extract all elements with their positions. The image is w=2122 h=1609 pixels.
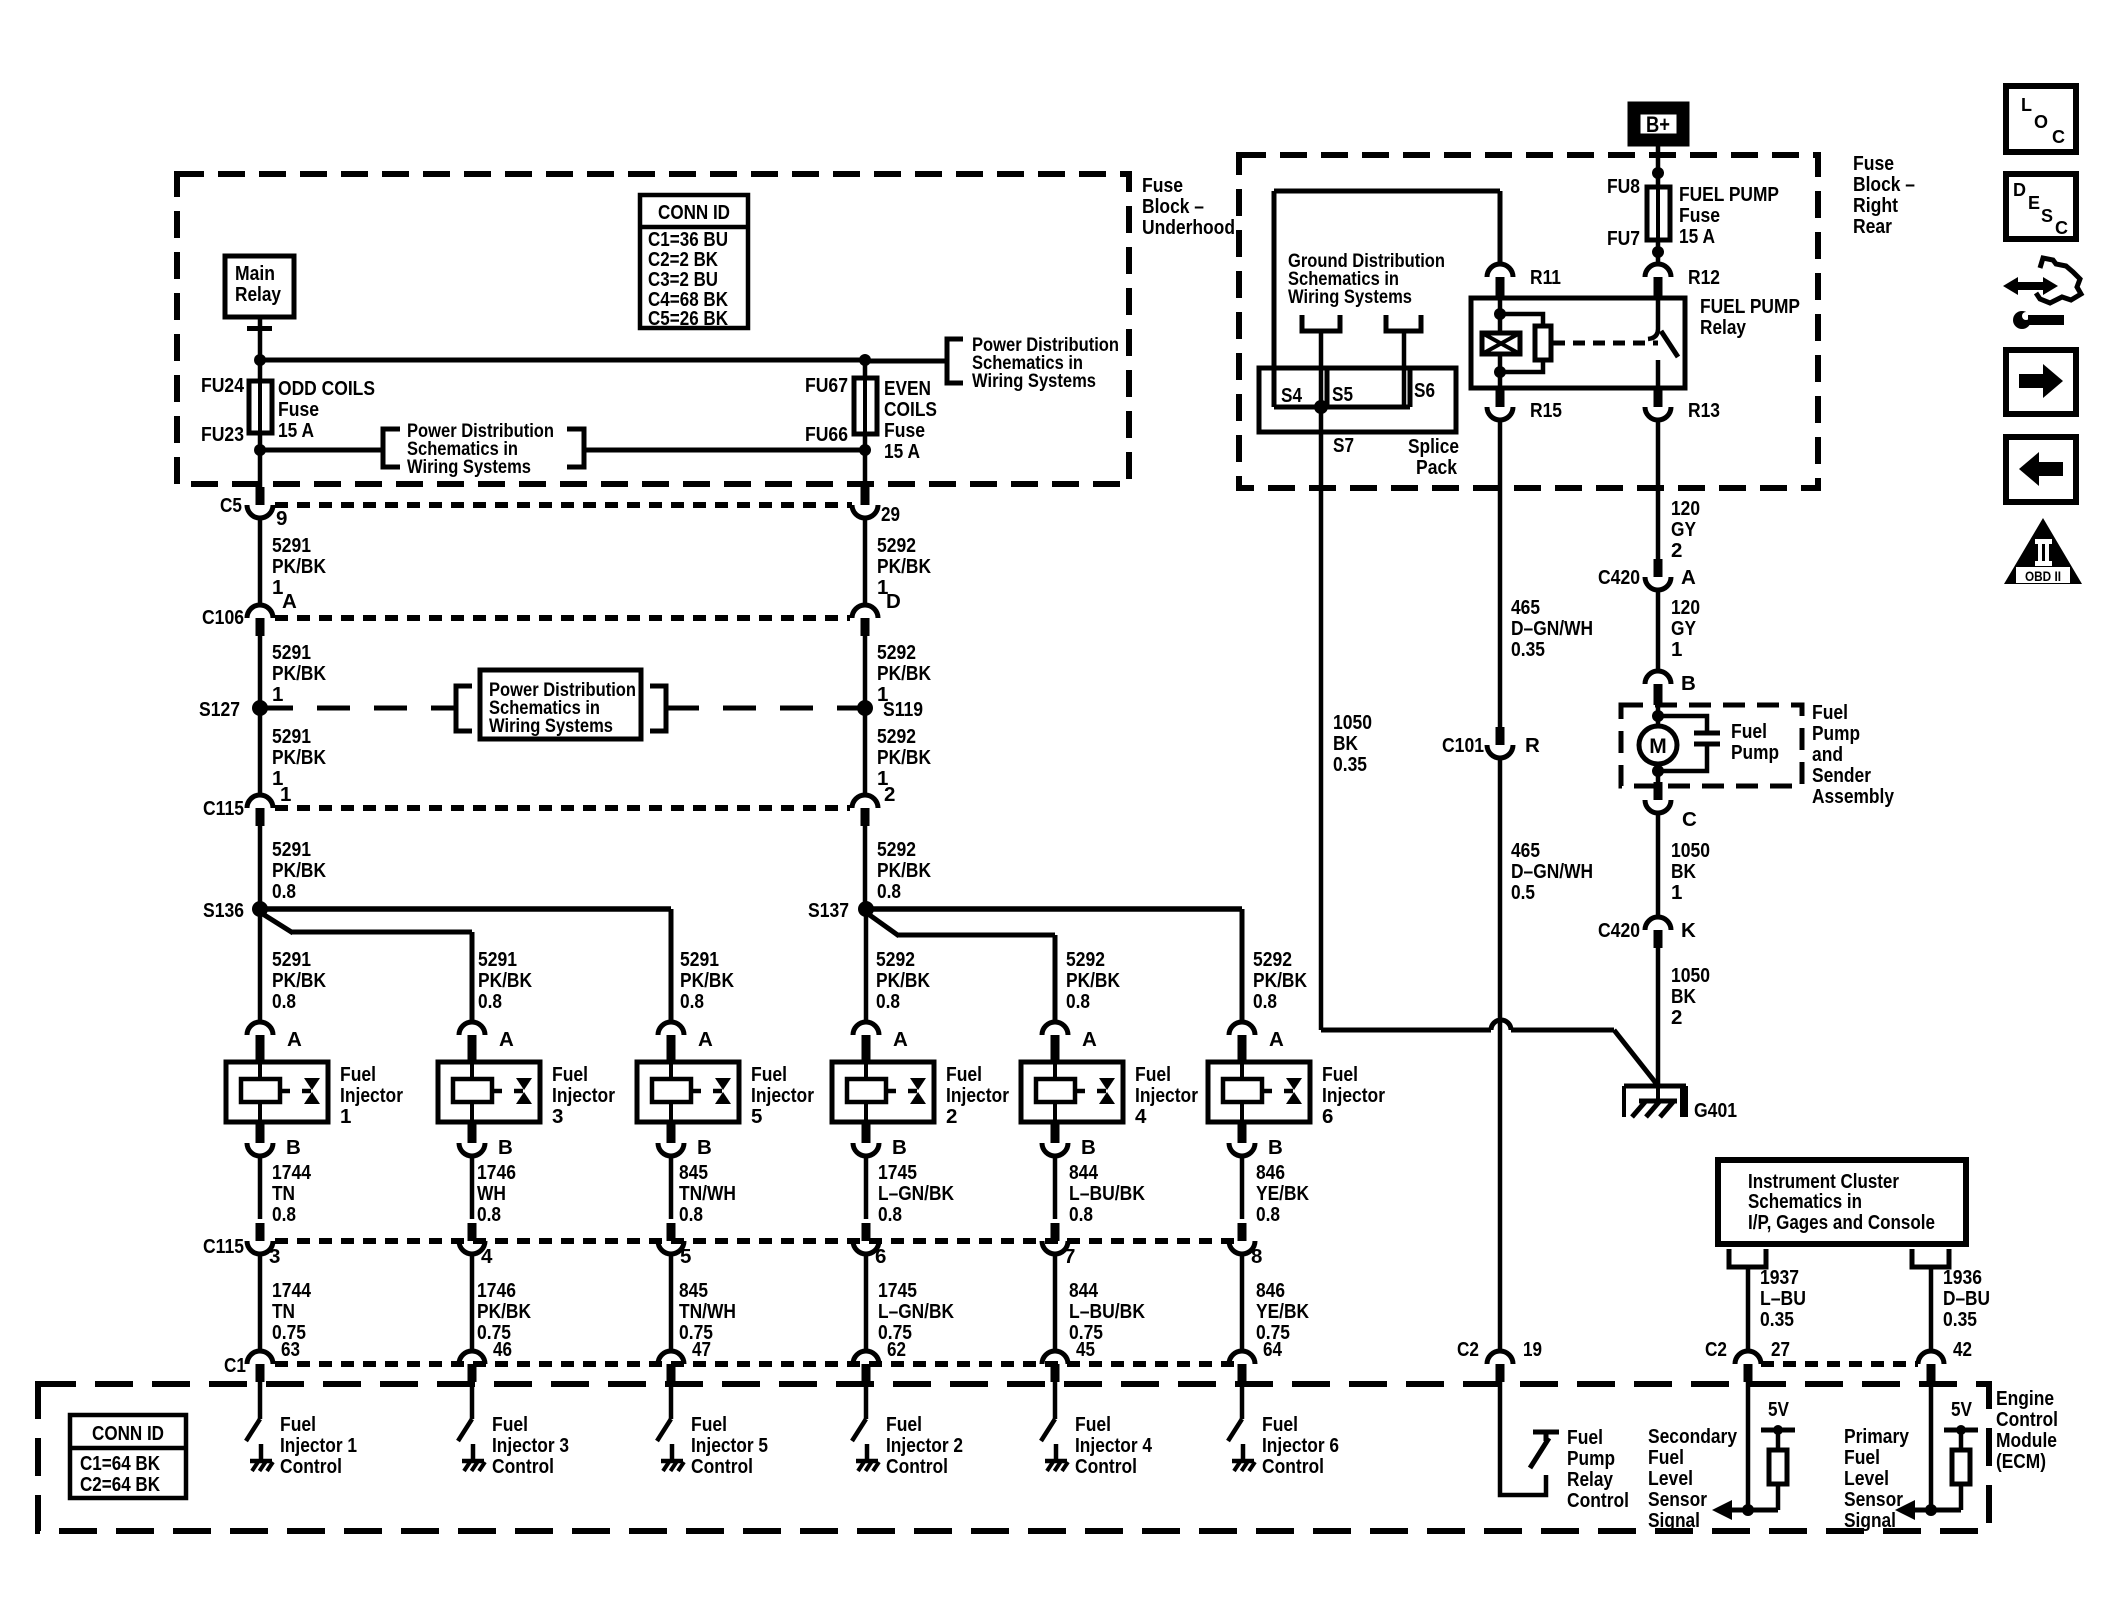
wire: top rail Main Relay to FU67 — [260, 358, 865, 363]
svg-text:Assembly: Assembly — [1812, 785, 1895, 808]
fuel injector 4 — [1021, 1062, 1123, 1122]
svg-text:Fuel: Fuel — [691, 1413, 727, 1436]
svg-text:PK/BK: PK/BK — [272, 746, 326, 769]
svg-text:FU66: FU66 — [805, 423, 848, 446]
svg-text:PK/BK: PK/BK — [477, 1300, 531, 1323]
svg-text:0.8: 0.8 — [679, 1203, 703, 1226]
svg-text:Engine: Engine — [1996, 1387, 2054, 1410]
connector R11 — [1487, 264, 1513, 277]
wire injector 3 B to C115 — [470, 1156, 475, 1219]
pump suppression capacitor — [1658, 716, 1707, 731]
svg-text:YE/BK: YE/BK — [1256, 1182, 1309, 1205]
svg-text:A: A — [1681, 566, 1696, 589]
svg-text:62: 62 — [887, 1338, 906, 1361]
connector pin B injector 4 — [1051, 1122, 1060, 1143]
connector R12 — [1645, 264, 1671, 277]
bracket: power distribution mid-right — [650, 686, 666, 731]
fuel pump and sender assembly dashed box — [1621, 705, 1802, 786]
svg-text:E: E — [2028, 193, 2040, 213]
svg-text:Fuel: Fuel — [1075, 1413, 1111, 1436]
svg-text:Injector 3: Injector 3 — [492, 1434, 569, 1457]
connector C1 pin 63 — [247, 1351, 273, 1364]
svg-text:FU7: FU7 — [1607, 227, 1640, 250]
svg-text:Block –: Block – — [1142, 195, 1204, 218]
svg-text:Fuel: Fuel — [340, 1063, 376, 1086]
svg-text:PK/BK: PK/BK — [877, 746, 931, 769]
svg-text:46: 46 — [493, 1338, 512, 1361]
svg-text:YE/BK: YE/BK — [1256, 1300, 1309, 1323]
svg-text:5292: 5292 — [877, 725, 916, 748]
svg-text:L–BU: L–BU — [1760, 1287, 1806, 1310]
splice S137 — [858, 901, 874, 917]
svg-text:FUEL PUMP: FUEL PUMP — [1679, 183, 1779, 206]
svg-text:COILS: COILS — [884, 398, 937, 421]
svg-text:FUEL PUMP: FUEL PUMP — [1700, 295, 1800, 318]
svg-text:19: 19 — [1523, 1338, 1542, 1361]
svg-text:Injector: Injector — [1135, 1084, 1198, 1107]
ECM driver: fuel injector 4 control switch — [1053, 1382, 1058, 1419]
svg-text:A: A — [1082, 1028, 1097, 1051]
wire 5292 PK/BK 1 (S119 to 2) — [863, 708, 868, 795]
svg-text:1937: 1937 — [1760, 1266, 1799, 1289]
svg-text:0.8: 0.8 — [1256, 1203, 1280, 1226]
connector C115 pin 8 — [1238, 1223, 1247, 1241]
svg-text:5291: 5291 — [478, 948, 517, 971]
svg-text:Injector: Injector — [1322, 1084, 1385, 1107]
svg-text:C5=26 BK: C5=26 BK — [648, 308, 728, 330]
svg-text:PK/BK: PK/BK — [478, 969, 532, 992]
svg-text:1744: 1744 — [272, 1279, 312, 1302]
svg-text:Module: Module — [1996, 1429, 2057, 1452]
fuel injector 6 — [1208, 1062, 1310, 1122]
svg-text:15 A: 15 A — [884, 440, 920, 463]
svg-text:Control: Control — [1567, 1489, 1629, 1512]
ECM driver: fuel injector 6 control switch — [1240, 1382, 1245, 1419]
wire hop over relay control wire — [1491, 1020, 1511, 1030]
svg-text:A: A — [893, 1028, 908, 1051]
svg-text:C2=64 BK: C2=64 BK — [80, 1474, 160, 1496]
wire 5291 PK/BK 1 (C5 to C106) — [258, 518, 263, 605]
CONN ID table underhood — [640, 195, 748, 328]
svg-text:Splice: Splice — [1408, 435, 1459, 458]
svg-text:9: 9 — [276, 507, 287, 530]
connector pin B injector 1 — [256, 1122, 265, 1143]
CONN ID table ECM — [70, 1415, 186, 1498]
wire 5292 PK/BK 1 (29 to D) — [863, 518, 868, 605]
connector pin A injector 1 — [247, 1022, 273, 1035]
svg-text:5291: 5291 — [272, 534, 311, 557]
connector pin B injector 5 — [667, 1122, 676, 1143]
wire 1050 BK 2 (C420 K to G401) — [1656, 948, 1661, 1086]
wire: S137 branch to injector 6 — [866, 906, 1242, 912]
svg-text:R13: R13 — [1688, 399, 1720, 422]
svg-text:29: 29 — [881, 503, 900, 526]
node: rail/Main Relay junction — [254, 354, 266, 366]
connector pin D (right column) — [852, 605, 878, 618]
svg-text:PK/BK: PK/BK — [877, 555, 931, 578]
svg-text:Main: Main — [235, 262, 275, 285]
svg-text:5292: 5292 — [877, 838, 916, 861]
wire bracket S5 to splice pack — [1319, 331, 1324, 407]
svg-text:D–GN/WH: D–GN/WH — [1511, 860, 1593, 883]
svg-text:L–BU/BK: L–BU/BK — [1069, 1182, 1145, 1205]
svg-text:S5: S5 — [1332, 383, 1353, 406]
connector pin A injector 6 — [1229, 1022, 1255, 1035]
fuel pump motor — [1656, 705, 1661, 727]
svg-text:C1=64 BK: C1=64 BK — [80, 1453, 160, 1475]
ECM driver: fuel pump relay control — [1500, 1382, 1546, 1495]
svg-text:FU23: FU23 — [201, 423, 244, 446]
svg-text:5V: 5V — [1768, 1398, 1789, 1421]
svg-text:1050: 1050 — [1671, 839, 1710, 862]
svg-text:Level: Level — [1844, 1467, 1889, 1490]
connector C1 pin 46 — [459, 1351, 485, 1364]
node: FU7 junction — [1652, 246, 1664, 258]
note: Power Distribution Schematics mid box — [480, 670, 641, 739]
engine control module dashed box — [38, 1384, 1989, 1531]
svg-text:A: A — [499, 1028, 514, 1051]
bracket: power distribution lower-left — [383, 429, 400, 467]
svg-text:Right: Right — [1853, 194, 1898, 217]
svg-text:45: 45 — [1076, 1338, 1095, 1361]
fuel injector 3 — [438, 1062, 540, 1122]
svg-text:Relay: Relay — [1700, 316, 1746, 339]
wire: Main Relay stem — [258, 317, 263, 381]
connector C1 pin 62 — [853, 1351, 879, 1364]
fuse block underhood dashed box — [177, 174, 1129, 484]
svg-text:Injector 6: Injector 6 — [1262, 1434, 1339, 1457]
wire 465 D-GN/WH 0.5 (C101 to ECM pin 19) — [1498, 758, 1503, 1352]
svg-text:Relay: Relay — [1567, 1468, 1613, 1491]
wire injector 2 control lower segment — [864, 1254, 869, 1352]
svg-text:1745: 1745 — [878, 1279, 917, 1302]
svg-text:Wiring Systems: Wiring Systems — [972, 370, 1096, 392]
battery feed B+ — [1634, 108, 1683, 140]
svg-text:PK/BK: PK/BK — [876, 969, 930, 992]
svg-text:R: R — [1525, 734, 1540, 757]
svg-text:Fuel: Fuel — [492, 1413, 528, 1436]
bracket: instrument cluster right — [1912, 1249, 1949, 1267]
svg-text:6: 6 — [1322, 1105, 1333, 1128]
svg-text:Rear: Rear — [1853, 215, 1892, 238]
svg-text:WH: WH — [477, 1182, 506, 1205]
svg-text:R12: R12 — [1688, 266, 1720, 289]
connector pin A injector 5 — [658, 1022, 684, 1035]
connector R13 — [1654, 388, 1663, 407]
wire injector 1 control lower segment — [258, 1254, 263, 1352]
fuse FU8/FU7 FUEL PUMP Fuse 15 A — [1656, 187, 1661, 264]
ground distribution feed wire — [1274, 189, 1500, 194]
secondary fuel level sensor input — [1746, 1382, 1751, 1510]
svg-text:D: D — [2013, 180, 2026, 200]
wire: S137 down to injector 2 — [864, 909, 869, 1022]
svg-text:Injector: Injector — [751, 1084, 814, 1107]
svg-text:GY: GY — [1671, 518, 1696, 541]
svg-text:42: 42 — [1953, 1338, 1972, 1361]
svg-text:3: 3 — [552, 1105, 563, 1128]
wire 5291 PK/BK 1 (C106 to S127) — [258, 636, 263, 708]
svg-text:0.8: 0.8 — [477, 1203, 501, 1226]
svg-text:Wiring Systems: Wiring Systems — [489, 715, 613, 737]
svg-text:L–GN/BK: L–GN/BK — [878, 1300, 954, 1323]
svg-text:0.35: 0.35 — [1760, 1308, 1794, 1331]
connector C115 pin 1 — [247, 795, 273, 808]
svg-text:Fuse: Fuse — [1679, 204, 1720, 227]
svg-text:5292: 5292 — [876, 948, 915, 971]
svg-text:C420: C420 — [1598, 566, 1640, 589]
svg-text:5291: 5291 — [272, 948, 311, 971]
ground (injector 4 driver) — [1045, 1459, 1067, 1464]
svg-text:5V: 5V — [1951, 1398, 1972, 1421]
svg-text:S7: S7 — [1333, 434, 1354, 457]
svg-text:R11: R11 — [1530, 266, 1561, 289]
ECM driver: fuel injector 5 control switch — [669, 1382, 674, 1419]
svg-text:846: 846 — [1256, 1161, 1285, 1184]
svg-text:Wiring Systems: Wiring Systems — [1288, 286, 1412, 308]
svg-text:5291: 5291 — [272, 838, 311, 861]
svg-text:Sender: Sender — [1812, 764, 1871, 787]
node: rail/FU67 junction — [859, 354, 871, 366]
svg-text:EVEN: EVEN — [884, 377, 931, 400]
svg-text:FU8: FU8 — [1607, 175, 1640, 198]
wire 120 GY 2 (R13 to C420 A) — [1656, 420, 1661, 559]
svg-text:C101: C101 — [1442, 734, 1484, 757]
connector C2 pin 19 — [1487, 1351, 1513, 1364]
svg-text:Injector: Injector — [946, 1084, 1009, 1107]
svg-text:Level: Level — [1648, 1467, 1693, 1490]
svg-text:Pack: Pack — [1416, 456, 1458, 479]
icon: back arrow button — [2006, 437, 2076, 502]
svg-text:5292: 5292 — [877, 534, 916, 557]
svg-text:1745: 1745 — [878, 1161, 917, 1184]
connector pin A injector 4 — [1042, 1022, 1068, 1035]
connector C420 pin K — [1645, 917, 1671, 930]
ground (injector 5 driver) — [661, 1459, 683, 1464]
svg-text:5291: 5291 — [272, 725, 311, 748]
svg-text:PK/BK: PK/BK — [877, 859, 931, 882]
bracket: power distribution mid-left — [456, 686, 472, 731]
svg-text:Fuel: Fuel — [886, 1413, 922, 1436]
svg-text:C2: C2 — [1457, 1338, 1479, 1361]
svg-text:and: and — [1812, 743, 1843, 766]
svg-text:1: 1 — [340, 1105, 351, 1128]
relay suppression resistor — [1500, 314, 1543, 326]
connector pin 42 — [1918, 1351, 1944, 1364]
wire injector 2 B to C115 — [864, 1156, 869, 1219]
svg-text:3: 3 — [269, 1245, 280, 1268]
connector line C115 row — [275, 805, 850, 811]
wire 5291 PK/BK 1 (S127 to C115) — [258, 708, 263, 795]
svg-text:S: S — [2041, 206, 2053, 226]
connector pin A injector 2 — [853, 1022, 879, 1035]
wire: S136 down to injector 1 — [258, 909, 263, 1022]
connector R15 — [1496, 388, 1505, 407]
svg-text:S6: S6 — [1414, 379, 1435, 402]
svg-text:Control: Control — [1996, 1408, 2058, 1431]
svg-text:844: 844 — [1069, 1279, 1098, 1302]
svg-text:844: 844 — [1069, 1161, 1098, 1184]
svg-text:Pump: Pump — [1812, 722, 1860, 745]
svg-text:6: 6 — [875, 1245, 886, 1268]
dashed link power distribution box to S119 — [666, 706, 865, 711]
svg-text:1: 1 — [272, 683, 283, 706]
svg-text:Injector 5: Injector 5 — [691, 1434, 768, 1457]
svg-text:C2=2 BK: C2=2 BK — [648, 249, 718, 271]
svg-text:Secondary: Secondary — [1648, 1425, 1738, 1448]
svg-text:L: L — [2021, 95, 2032, 115]
connector line C5 row — [275, 502, 852, 508]
relay actuation dashed link — [1553, 341, 1658, 346]
svg-text:0.8: 0.8 — [272, 990, 296, 1013]
svg-text:S127: S127 — [199, 698, 240, 721]
svg-text:Fuel: Fuel — [1322, 1063, 1358, 1086]
svg-text:L–BU/BK: L–BU/BK — [1069, 1300, 1145, 1323]
ECM driver: fuel injector 2 control switch — [864, 1382, 869, 1419]
svg-text:1: 1 — [280, 783, 291, 806]
connector C1 pin 45 — [1042, 1351, 1068, 1364]
svg-text:465: 465 — [1511, 596, 1540, 619]
svg-text:A: A — [282, 590, 297, 613]
svg-text:Fuel: Fuel — [1135, 1063, 1171, 1086]
wire injector 3 control lower segment — [470, 1254, 475, 1352]
ground G401 — [1624, 1084, 1686, 1089]
svg-text:5291: 5291 — [272, 641, 311, 664]
ground (injector 6 driver) — [1232, 1459, 1254, 1464]
svg-text:FU24: FU24 — [201, 374, 245, 397]
wire bracket S6 to splice pack — [1402, 331, 1407, 407]
svg-text:Control: Control — [1075, 1455, 1137, 1478]
svg-text:C115: C115 — [203, 797, 244, 820]
svg-text:Fuel: Fuel — [946, 1063, 982, 1086]
svg-text:C420: C420 — [1598, 919, 1640, 942]
svg-text:B: B — [1268, 1136, 1283, 1159]
svg-text:PK/BK: PK/BK — [272, 969, 326, 992]
svg-text:S119: S119 — [883, 698, 923, 721]
svg-text:27: 27 — [1771, 1338, 1790, 1361]
svg-text:C1=36 BU: C1=36 BU — [648, 229, 728, 251]
svg-text:845: 845 — [679, 1279, 708, 1302]
svg-text:S4: S4 — [1281, 384, 1302, 407]
svg-text:S137: S137 — [808, 899, 849, 922]
svg-text:Sensor: Sensor — [1648, 1488, 1707, 1511]
svg-text:845: 845 — [679, 1161, 708, 1184]
relay: Main Relay box — [225, 256, 294, 317]
svg-text:B: B — [892, 1136, 907, 1159]
svg-text:7: 7 — [1064, 1245, 1075, 1268]
fuse FU67/FU66 EVEN COILS Fuse 15 A — [863, 361, 868, 487]
svg-text:OBD II: OBD II — [2025, 568, 2061, 584]
svg-text:Pump: Pump — [1731, 741, 1779, 764]
fuse block right rear dashed box — [1239, 155, 1818, 488]
wire: lower rail FU23 to bracket — [260, 448, 383, 453]
splice pack box S4 S5 S6 S7 — [1259, 368, 1456, 432]
primary fuel level sensor input — [1929, 1382, 1934, 1510]
svg-text:846: 846 — [1256, 1279, 1285, 1302]
wire injector 4 control lower segment — [1053, 1254, 1058, 1352]
node: FU66 junction — [859, 444, 871, 456]
svg-text:Fuel: Fuel — [1812, 701, 1848, 724]
svg-text:Control: Control — [280, 1455, 342, 1478]
svg-text:0.8: 0.8 — [680, 990, 704, 1013]
svg-text:Fuel: Fuel — [1648, 1446, 1684, 1469]
svg-text:Signal: Signal — [1844, 1509, 1896, 1532]
svg-text:C115: C115 — [203, 1235, 244, 1258]
svg-text:C: C — [2052, 127, 2065, 147]
wire: S137 branch to injector 4 — [864, 911, 899, 936]
svg-text:CONN ID: CONN ID — [92, 1423, 164, 1445]
svg-text:B: B — [1081, 1136, 1096, 1159]
svg-text:0.8: 0.8 — [1066, 990, 1090, 1013]
bracket: instrument cluster left — [1729, 1249, 1766, 1267]
splice S136 — [252, 901, 268, 917]
svg-text:0.8: 0.8 — [876, 990, 900, 1013]
svg-text:0.8: 0.8 — [272, 880, 296, 903]
svg-text:C3=2 BU: C3=2 BU — [648, 269, 718, 291]
svg-text:FU67: FU67 — [805, 374, 848, 397]
svg-text:Control: Control — [886, 1455, 948, 1478]
ground (injector 1 driver) — [250, 1459, 272, 1464]
svg-text:5291: 5291 — [680, 948, 719, 971]
svg-text:1050: 1050 — [1671, 964, 1710, 987]
svg-text:0.35: 0.35 — [1943, 1308, 1977, 1331]
connector pin B injector 3 — [468, 1122, 477, 1143]
svg-text:Fuel: Fuel — [1844, 1446, 1880, 1469]
svg-text:BK: BK — [1333, 732, 1358, 755]
bracket: ground distribution S5 — [1302, 315, 1340, 331]
svg-text:C: C — [1682, 808, 1697, 831]
connector C115 pin 5 — [667, 1223, 676, 1241]
ground (injector 2 driver) — [856, 1459, 878, 1464]
svg-text:Fuse: Fuse — [884, 419, 925, 442]
splice S119 — [857, 700, 873, 716]
wire: S136 branch to injector 3 — [258, 911, 293, 933]
instrument cluster box — [1718, 1160, 1966, 1244]
connector C115 pin 7 — [1051, 1223, 1060, 1241]
svg-text:1: 1 — [1671, 881, 1682, 904]
svg-text:15 A: 15 A — [278, 419, 314, 442]
Main Relay pin tick — [247, 326, 272, 331]
svg-text:PK/BK: PK/BK — [680, 969, 734, 992]
ECM driver: fuel injector 3 control switch — [470, 1382, 475, 1419]
svg-text:Primary: Primary — [1844, 1425, 1910, 1448]
svg-text:M: M — [1649, 735, 1667, 758]
fuel injector 1 — [226, 1062, 328, 1122]
connector C5 pin 9 — [256, 487, 265, 505]
connector pin B injector 6 — [1238, 1122, 1247, 1143]
svg-text:BK: BK — [1671, 860, 1696, 883]
svg-text:Injector 1: Injector 1 — [280, 1434, 357, 1457]
bracket: ground distribution S6 — [1386, 315, 1421, 331]
svg-text:Block –: Block – — [1853, 173, 1915, 196]
wire 1937 L-BU 0.35 — [1746, 1267, 1751, 1352]
svg-text:G401: G401 — [1694, 1099, 1737, 1122]
svg-text:C106: C106 — [202, 606, 244, 629]
svg-text:Fuel: Fuel — [280, 1413, 316, 1436]
svg-text:Wiring Systems: Wiring Systems — [407, 456, 531, 478]
svg-text:Control: Control — [492, 1455, 554, 1478]
wire 1050 BK 1 (C to C420 K) — [1656, 813, 1661, 917]
fuse FU24/FU23 ODD COILS Fuse 15 A — [258, 381, 263, 487]
connector pin C fuel pump — [1654, 782, 1663, 800]
bracket: power distribution lower-right — [567, 429, 584, 467]
svg-text:Relay: Relay — [235, 283, 281, 306]
dashed link S127 to power distribution box — [260, 706, 455, 711]
svg-text:4: 4 — [1135, 1105, 1147, 1128]
wire injector 6 control lower segment — [1240, 1254, 1245, 1352]
svg-text:5: 5 — [680, 1245, 691, 1268]
svg-text:Instrument Cluster: Instrument Cluster — [1748, 1171, 1899, 1193]
node: coil top — [1494, 308, 1506, 320]
